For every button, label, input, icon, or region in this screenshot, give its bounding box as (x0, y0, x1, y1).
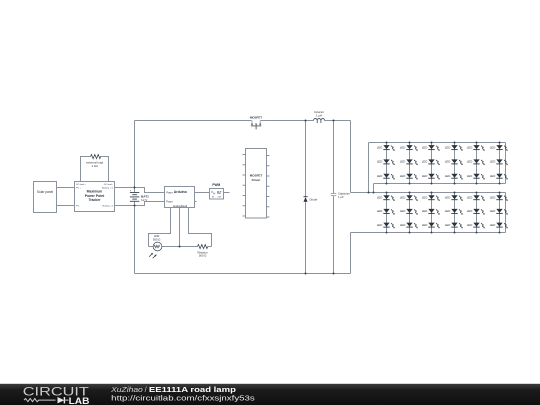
svg-text:Solar panel: Solar panel (37, 190, 53, 194)
wire feed to group1 top rail (368, 143, 370, 193)
node ground / diode branch (305, 273, 307, 275)
wire top: MOSFET to inductor (261, 120, 314, 122)
node ground / capacitor branch (333, 273, 335, 275)
LED group1 column 6 row 2 (490, 159, 508, 165)
svg-text:MOSFET: MOSFET (250, 116, 262, 120)
diode D1 (freewheel) (304, 197, 318, 202)
wire link group1 bottom to group2 top (373, 184, 375, 193)
LED group2 column 3 row 3 (422, 223, 440, 229)
wire top: battery+ rail to MOSFET (135, 120, 252, 122)
wire LED return vertical (350, 233, 352, 274)
wire external load right leg (101, 157, 109, 182)
inductor L1 1 uH (314, 110, 325, 123)
LDR photoresistor 500 Ohm (149, 234, 162, 258)
node group link junction (373, 192, 375, 194)
pin left 7 (243, 215, 246, 217)
wire LED string column 3 (group2) (431, 193, 433, 233)
pin right 1 (267, 155, 270, 157)
LED group1 column 1 row 2 (377, 159, 395, 165)
arduino block U3 (165, 187, 195, 209)
wire group2 bottom rail (351, 232, 506, 234)
node group1 column 1 top junction (386, 142, 388, 144)
svg-text:12 V: 12 V (141, 198, 148, 202)
pin left 5 (243, 195, 246, 197)
svg-text:/: / (145, 385, 147, 394)
svg-text:Diode: Diode (310, 198, 318, 202)
pin left 6 (243, 205, 246, 207)
wire group2 right vertical (505, 193, 507, 233)
LED group2 column 3 row 1 (422, 195, 440, 201)
pin right 5 (267, 196, 270, 198)
wire LED string column 3 (group1) (431, 143, 433, 184)
svg-text:1 μH: 1 μH (316, 113, 322, 117)
wire LDR left lead (149, 246, 154, 248)
node group2 column 5 bottom junction (476, 232, 478, 234)
wire top: inductor to right corner (325, 120, 351, 122)
LED group1 column 5 row 2 (467, 159, 485, 165)
wire arduino pin to LDR (149, 208, 171, 247)
LED group1 column 4 row 3 (445, 174, 463, 180)
MOSFET driver block U1 (243, 149, 270, 219)
capacitor C1 1 uF (331, 191, 350, 198)
svg-text:Power: Power (166, 200, 173, 203)
LED group1 column 2 row 1 (400, 145, 418, 151)
LED group1 column 4 row 1 (445, 145, 463, 151)
svg-text:Power: Power (166, 191, 173, 194)
footer bar (0, 384, 540, 405)
LED group1 column 2 row 3 (400, 174, 418, 180)
LED group1 column 1 row 1 (377, 145, 395, 151)
LED group2 column 1 row 2 (377, 209, 395, 215)
MPPT block U2 (75, 182, 115, 212)
svg-text:PV -: PV - (76, 206, 81, 208)
wire PWM output stub (224, 192, 230, 194)
wire capacitor branch lower (333, 196, 335, 274)
wire arduino to PWM (195, 192, 210, 194)
wire resistor right lead (208, 246, 212, 248)
wire battery- to arduino power (115, 202, 165, 206)
node LED feed junction (368, 192, 370, 194)
LED group1 column 4 row 2 (445, 159, 463, 165)
wire LED string column 4 (group1) (454, 143, 456, 184)
svg-text:1 μF: 1 μF (338, 195, 344, 199)
wire solar panel to PV- (57, 205, 75, 207)
LED group1 column 1 row 3 (377, 174, 395, 180)
LED group2 column 6 row 1 (490, 195, 508, 201)
LED group2 column 4 row 3 (445, 223, 463, 229)
LED group2 column 6 row 3 (490, 223, 508, 229)
LED group1 column 5 row 1 (467, 145, 485, 151)
svg-text:DC load +: DC load + (76, 184, 87, 186)
node group2 column 3 bottom junction (431, 232, 433, 234)
LED group2 column 5 row 2 (467, 209, 485, 215)
pin right 2 (267, 165, 270, 167)
logo resistor zigzag (24, 399, 55, 402)
LED group2 column 1 row 3 (377, 223, 395, 229)
node group1 column 6 bottom junction (499, 183, 501, 185)
wire group2 top rail (351, 192, 506, 194)
node battery + (134, 187, 136, 189)
logo diode symbol (58, 397, 65, 403)
svg-text:XuZihao: XuZihao (110, 385, 143, 394)
LED group2 column 4 row 1 (445, 195, 463, 201)
node group1 column 2 bottom junction (409, 183, 411, 185)
svg-text:Battery + in: Battery + in (102, 187, 114, 190)
LED group1 column 6 row 3 (490, 174, 508, 180)
svg-text:500 Ω: 500 Ω (199, 254, 207, 258)
LED group1 column 5 row 3 (467, 174, 485, 180)
wire LED string column 1 (group2) (386, 193, 388, 233)
svg-text:EE1111A road lamp: EE1111A road lamp (149, 385, 237, 394)
svg-text:1 kΩ: 1 kΩ (91, 164, 98, 168)
pin left 1 (243, 154, 246, 156)
LED group2 column 4 row 2 (445, 209, 463, 215)
wire ground bottom rail (135, 273, 351, 275)
wire group1 bottom rail (374, 183, 506, 185)
node group1 column 5 top junction (476, 142, 478, 144)
wire LED string column 1 (group1) (386, 143, 388, 184)
LED group1 column 3 row 1 (422, 145, 440, 151)
node group2 column 6 top junction (499, 192, 501, 194)
wire left vertical below battery (134, 202, 136, 274)
node group2 column 2 top junction (409, 192, 411, 194)
LED group2 column 6 row 2 (490, 209, 508, 215)
node group1 column 3 bottom junction (431, 183, 433, 185)
svg-text:Arduino: Arduino (174, 190, 187, 194)
node group1 column 4 top junction (454, 142, 456, 144)
wire left vertical above battery (134, 121, 136, 193)
node battery - (134, 205, 136, 207)
pin left 4 (243, 184, 246, 186)
node group1 column 2 top junction (409, 142, 411, 144)
node group1 column 3 top junction (431, 142, 433, 144)
node analog divider tap (179, 246, 181, 248)
wire LED string column 6 (group1) (499, 143, 501, 184)
svg-text:Battery - in: Battery - in (103, 205, 114, 208)
node group2 column 1 top junction (386, 192, 388, 194)
wire capacitor branch upper (333, 121, 335, 194)
node group1 column 4 bottom junction (454, 183, 456, 185)
resistor 500 Ohm (197, 245, 207, 258)
LED group2 column 1 row 1 (377, 195, 395, 201)
pin right 7 (267, 216, 270, 218)
wire group1 top rail (369, 142, 506, 144)
wire arduino pin to resistor (189, 208, 212, 247)
LED group1 column 2 row 2 (400, 159, 418, 165)
node group2 column 1 bottom junction (386, 232, 388, 234)
node group2 column 3 top junction (431, 192, 433, 194)
node group2 column 4 bottom junction (454, 232, 456, 234)
node group2 column 4 top junction (454, 192, 456, 194)
wire LED string column 4 (group2) (454, 193, 456, 233)
wire solar panel to PV+ (57, 187, 75, 189)
wire LED string column 6 (group2) (499, 193, 501, 233)
wire right feed vertical (350, 121, 352, 193)
wire battery+ to arduino power (115, 188, 165, 193)
svg-text:PWM: PWM (212, 183, 220, 187)
node group1 column 6 top junction (499, 142, 501, 144)
svg-text:DC load -: DC load - (104, 184, 114, 186)
wire diode branch upper (305, 121, 307, 197)
pin right 3 (267, 175, 270, 177)
node top rail / diode branch (305, 120, 307, 122)
wire arduino analog tap (179, 208, 181, 247)
LED group2 column 5 row 1 (467, 195, 485, 201)
LED group2 column 2 row 2 (400, 209, 418, 215)
LED group2 column 2 row 1 (400, 195, 418, 201)
PWM block (210, 183, 224, 199)
pin right 4 (267, 185, 270, 187)
svg-text:AnalogRead: AnalogRead (173, 204, 188, 208)
wire arduino right stub (195, 201, 197, 203)
wire external load left leg (81, 157, 91, 182)
svg-text:PV +: PV + (76, 188, 82, 190)
battery BAT1 12 V (130, 190, 149, 203)
node group2 column 5 top junction (476, 192, 478, 194)
pin left 2 (243, 164, 246, 166)
wire LED string column 2 (group2) (409, 193, 411, 233)
wire LDR to resistor (162, 246, 198, 248)
MOSFET Q1 (on top rail) (250, 116, 262, 130)
LED group2 column 2 row 3 (400, 223, 418, 229)
LED group1 column 6 row 1 (490, 145, 508, 151)
pin left 3 (243, 174, 246, 176)
LED group1 column 3 row 3 (422, 174, 440, 180)
svg-text:http://circuitlab.com/cfxxsjnx: http://circuitlab.com/cfxxsjnxfy53s (111, 394, 255, 403)
node group1 column 1 bottom junction (386, 183, 388, 185)
wire LED string column 2 (group1) (409, 143, 411, 184)
LED array group 1 (upper bank) (377, 142, 508, 185)
node group2 column 2 bottom junction (409, 232, 411, 234)
external load resistor 1 kOhm (86, 155, 104, 169)
svg-text:Driver: Driver (252, 178, 262, 182)
wire LED string column 5 (group2) (476, 193, 478, 233)
solar panel box (34, 182, 57, 213)
wire diode branch lower (305, 202, 307, 274)
node top rail / capacitor branch (333, 120, 335, 122)
pin right 6 (267, 206, 270, 208)
wire group1 right vertical (505, 143, 507, 184)
LED array group 2 (lower bank) (377, 192, 508, 234)
svg-text:LAB: LAB (69, 396, 90, 405)
LED group2 column 5 row 3 (467, 223, 485, 229)
LED group1 column 3 row 2 (422, 159, 440, 165)
svg-text:Tracker: Tracker (88, 198, 101, 202)
svg-text:500 Ω: 500 Ω (153, 238, 161, 242)
node group1 column 5 bottom junction (476, 183, 478, 185)
LED group2 column 3 row 2 (422, 209, 440, 215)
wire LED string column 5 (group1) (476, 143, 478, 184)
node group2 column 6 bottom junction (499, 232, 501, 234)
